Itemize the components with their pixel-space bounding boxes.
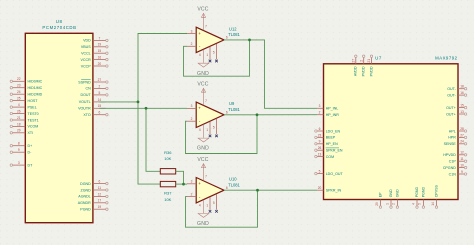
svg-text:24: 24	[17, 90, 21, 94]
svg-text:5: 5	[213, 201, 215, 205]
svg-text:3: 3	[191, 180, 193, 184]
junction U10 output node	[256, 189, 259, 192]
R37 value 10K	[164, 197, 171, 202]
wire U9 output to HP_INR	[224, 114, 317, 116]
junction U12 output node	[248, 39, 251, 42]
U10 value TL081	[228, 182, 240, 187]
svg-text:12: 12	[98, 192, 102, 196]
svg-text:R36: R36	[164, 150, 172, 155]
svg-text:PGND: PGND	[415, 187, 419, 198]
U9 reference designator	[229, 101, 235, 106]
svg-text:TL081: TL081	[228, 182, 240, 187]
U12 - input pin 2	[187, 42, 196, 46]
svg-text:+: +	[198, 181, 201, 186]
svg-text:LDO_EN: LDO_EN	[326, 129, 341, 133]
junction VOUTR node	[145, 107, 148, 110]
wire R37 output to U10 + input	[176, 183, 187, 185]
svg-text:4: 4	[199, 203, 201, 207]
svg-text:4: 4	[411, 203, 415, 205]
svg-text:19: 19	[98, 43, 102, 47]
svg-text:4: 4	[199, 53, 201, 57]
svg-text:5: 5	[213, 51, 215, 55]
GND power symbol below U10	[197, 214, 209, 228]
svg-text:VCOM: VCOM	[28, 125, 39, 129]
svg-text:VCCR: VCCR	[81, 58, 92, 62]
svg-text:26: 26	[318, 146, 322, 150]
IC U8 PCM2704CDB body	[25, 33, 93, 222]
svg-text:2: 2	[191, 192, 193, 196]
svg-text:20: 20	[98, 62, 102, 66]
U12 feedback wire (output to - input)	[184, 40, 250, 76]
U12 offset-null pin 1 with no-connect X	[206, 47, 211, 63]
svg-text:6: 6	[99, 180, 101, 184]
svg-text:PGND: PGND	[80, 208, 91, 212]
svg-text:+: +	[198, 106, 201, 111]
svg-text:11: 11	[460, 157, 464, 161]
wire R36 output down to mono node	[176, 171, 184, 184]
svg-text:SSPND: SSPND	[78, 80, 91, 84]
U8 left-side pins (HID0/MC,HID1/MC,HID2/MD,HOST,PSEL,TEST0,TEST1,VCOM,XTI,D+,D-,DT) with pin numbers	[10, 77, 43, 167]
svg-text:VDD: VDD	[83, 39, 91, 43]
svg-text:5: 5	[99, 91, 101, 95]
svg-text:10: 10	[460, 164, 464, 168]
U12 V- pin 4	[199, 50, 204, 63]
svg-text:2: 2	[191, 42, 193, 46]
svg-text:AVDD: AVDD	[354, 66, 358, 76]
R36 reference	[164, 150, 172, 155]
svg-text:XTO: XTO	[83, 113, 91, 117]
svg-text:19: 19	[98, 205, 102, 209]
VCC power symbol above U9	[197, 82, 208, 93]
svg-text:U8: U8	[56, 19, 63, 24]
svg-text:27: 27	[352, 59, 356, 63]
wire U10 output to SPKR_IN	[224, 189, 317, 191]
svg-text:2: 2	[392, 203, 396, 205]
U8 right-side pins (VDD,VBUS,VCCL,VCCR,VCCP,SSPND,CN,DOUT,VOUTL,VOUTR,XTO,DGND,ZGND,AGNDL,AGNDR,PGND) with pin numbers	[78, 36, 108, 211]
IC U7 MAX9792 body	[324, 64, 459, 200]
svg-text:5: 5	[418, 203, 422, 205]
U12 offset-null pin 5 with no-connect X	[213, 44, 218, 62]
svg-text:U12: U12	[229, 26, 237, 31]
svg-text:10K: 10K	[164, 156, 171, 161]
U10 offset-null pin 1 with no-connect X	[206, 197, 211, 213]
svg-text:HP_INR: HP_INR	[326, 113, 340, 117]
svg-text:2: 2	[99, 84, 101, 88]
svg-text:HPVDD: HPVDD	[443, 153, 456, 157]
U9 feedback wire (output to - input)	[186, 115, 258, 154]
svg-text:6: 6	[99, 111, 101, 115]
svg-text:27: 27	[460, 133, 464, 137]
U10 offset-null pin 5 with no-connect X	[213, 194, 218, 212]
svg-text:1: 1	[385, 203, 389, 205]
junction VOUTL node	[137, 101, 140, 104]
svg-text:U7: U7	[375, 56, 382, 61]
svg-text:23: 23	[17, 84, 21, 88]
svg-text:3: 3	[191, 104, 193, 108]
svg-text:CPGND: CPGND	[443, 166, 456, 170]
svg-text:1: 1	[206, 128, 208, 132]
U10 + input pin 3	[187, 180, 196, 184]
svg-text:AGNDL: AGNDL	[78, 195, 90, 199]
svg-text:2: 2	[319, 111, 321, 115]
svg-text:6: 6	[226, 186, 228, 190]
op-amp U12 TL081 body	[196, 27, 224, 52]
svg-text:15: 15	[98, 49, 102, 53]
svg-text:17: 17	[98, 199, 102, 203]
svg-text:PCM2704CDB: PCM2704CDB	[42, 25, 76, 30]
svg-text:U10: U10	[229, 177, 237, 182]
svg-text:HID0/MC: HID0/MC	[28, 80, 43, 84]
svg-text:2: 2	[359, 60, 363, 62]
U10 - input pin 2	[187, 192, 196, 196]
wire VOUTR (U8 pin 15) to U9 + input	[99, 107, 187, 109]
svg-text:16: 16	[460, 91, 464, 95]
U9 offset-null pin 1 with no-connect X	[206, 122, 211, 138]
svg-text:C1N: C1N	[449, 172, 457, 176]
svg-text:VBUS: VBUS	[81, 45, 91, 49]
svg-text:15: 15	[98, 104, 102, 108]
U9 V+ pin 7	[204, 89, 208, 106]
svg-text:4: 4	[199, 128, 201, 132]
svg-text:1: 1	[206, 53, 208, 57]
svg-text:SPKR_EN: SPKR_EN	[326, 149, 343, 153]
svg-text:OUT-: OUT-	[447, 87, 456, 91]
svg-text:18: 18	[460, 85, 464, 89]
svg-text:4: 4	[18, 103, 20, 107]
svg-text:6: 6	[319, 127, 321, 131]
svg-text:R37: R37	[164, 191, 172, 196]
svg-text:XTI: XTI	[28, 131, 34, 135]
svg-text:9: 9	[461, 170, 463, 174]
svg-text:2: 2	[191, 117, 193, 121]
U12 V+ pin 7	[204, 14, 208, 31]
svg-text:CPVSS: CPVSS	[434, 185, 438, 198]
svg-text:27: 27	[98, 78, 102, 82]
svg-text:TL081: TL081	[228, 107, 240, 112]
U12 output pin 6	[226, 36, 228, 40]
svg-text:PVDD: PVDD	[369, 66, 373, 76]
U10 V+ pin 7	[204, 164, 208, 181]
svg-text:OUT+: OUT+	[446, 106, 456, 110]
resistor R36	[160, 169, 175, 174]
svg-text:GND: GND	[197, 221, 209, 227]
wire U12 output to HP_INL	[224, 40, 317, 108]
svg-text:GND: GND	[197, 146, 209, 152]
svg-text:14: 14	[431, 202, 435, 206]
svg-text:OUT+: OUT+	[446, 112, 456, 116]
U7 right-side pins (OUT-,OUT-,OUT+,OUT+,HPL,HPR,SENSE,HPVDD,C1P,CPGND,C1N) with pin numbers	[443, 85, 467, 177]
svg-text:29: 29	[375, 202, 379, 206]
svg-text:PSEL: PSEL	[28, 105, 37, 109]
svg-text:22: 22	[17, 77, 21, 81]
R37 reference	[164, 191, 172, 196]
U10 feedback wire (output to - input)	[186, 190, 258, 227]
U8 value PCM2704CDB	[42, 25, 76, 30]
wire node down to resistor R37	[138, 102, 160, 184]
svg-text:VCC: VCC	[197, 7, 208, 13]
svg-text:18: 18	[17, 122, 21, 126]
svg-text:16: 16	[98, 56, 102, 60]
svg-text:13: 13	[460, 110, 464, 114]
svg-text:29: 29	[17, 129, 21, 133]
U9 + input pin 3	[187, 104, 196, 108]
U9 value TL081	[228, 107, 240, 112]
U7 left-side pins (HP_INL,HP_INR,LDO_EN,BEEP,HP_EN,SPKR_EN,COM,LDO_OUT,SPKR_IN) with pin numbers	[315, 104, 344, 192]
svg-text:VOUTR: VOUTR	[78, 107, 91, 111]
svg-text:9: 9	[18, 148, 20, 152]
svg-text:HOST: HOST	[28, 99, 39, 103]
U7 top-side power pins (AVDD,PVDD,PVDD) with pin numbers	[352, 55, 374, 76]
svg-text:15: 15	[460, 104, 464, 108]
svg-text:TL081: TL081	[228, 32, 240, 37]
svg-text:7: 7	[99, 36, 101, 40]
U9 - input pin 2	[187, 117, 196, 121]
svg-text:13: 13	[318, 153, 322, 157]
GND power symbol below U12	[197, 63, 209, 77]
svg-text:U9: U9	[229, 101, 235, 106]
svg-text:3: 3	[191, 29, 193, 33]
svg-text:28: 28	[460, 127, 464, 131]
svg-text:10K: 10K	[164, 197, 171, 202]
resistor R37	[160, 181, 175, 186]
svg-text:1: 1	[206, 203, 208, 207]
svg-text:PVDD: PVDD	[362, 66, 366, 76]
svg-text:VCCL: VCCL	[81, 52, 91, 56]
svg-text:BEEP: BEEP	[326, 136, 336, 140]
svg-text:HID2/MD: HID2/MD	[28, 93, 43, 97]
wire node up to U12 + input	[138, 34, 187, 102]
svg-text:D+: D+	[28, 144, 33, 148]
svg-text:5: 5	[319, 170, 321, 174]
U7 value MAX9792	[435, 56, 457, 61]
U7 reference designator	[375, 56, 382, 61]
svg-text:24: 24	[460, 140, 464, 144]
U9 V- pin 4	[199, 124, 204, 137]
svg-text:TEST0: TEST0	[28, 112, 39, 116]
svg-text:VCC: VCC	[197, 82, 208, 88]
VCC power symbol above U12	[197, 7, 208, 18]
svg-text:COM: COM	[326, 155, 334, 159]
svg-text:6: 6	[226, 110, 228, 114]
svg-text:12: 12	[460, 151, 464, 155]
svg-text:HP_EN: HP_EN	[326, 142, 338, 146]
svg-text:ZGND: ZGND	[81, 188, 92, 192]
svg-text:HP_INL: HP_INL	[326, 107, 339, 111]
U10 output pin 6	[226, 186, 228, 190]
svg-text:11: 11	[98, 186, 102, 190]
svg-text:VOUTL: VOUTL	[79, 100, 91, 104]
svg-text:AGNDR: AGNDR	[78, 201, 91, 205]
svg-text:LDO_OUT: LDO_OUT	[326, 172, 344, 176]
svg-text:21: 21	[17, 116, 21, 120]
svg-text:9: 9	[319, 140, 321, 144]
svg-text:VCCP: VCCP	[81, 64, 92, 68]
svg-text:7: 7	[205, 175, 207, 179]
svg-text:CN: CN	[85, 87, 91, 91]
svg-text:21: 21	[367, 59, 371, 63]
svg-text:HID1/MC: HID1/MC	[28, 86, 43, 90]
svg-text:HPL: HPL	[449, 129, 456, 133]
svg-text:VCC: VCC	[197, 157, 208, 163]
junction mono summing node	[182, 183, 185, 186]
svg-text:MAX9792: MAX9792	[435, 56, 457, 61]
svg-text:3: 3	[319, 104, 321, 108]
op-amp U10 TL081 body	[196, 178, 224, 203]
svg-text:SENSE: SENSE	[444, 142, 457, 146]
R36 value 10K	[164, 156, 171, 161]
U12 value TL081	[228, 32, 240, 37]
U7 bottom-side pins (EP,GND,GND,PGND,PGND,CPVSS) with pin numbers	[375, 185, 439, 209]
svg-text:+: +	[198, 31, 201, 36]
svg-text:DOUT: DOUT	[81, 93, 92, 97]
U12 reference designator	[229, 26, 237, 31]
svg-text:DGND: DGND	[80, 182, 91, 186]
op-amp U9 TL081 body	[196, 102, 224, 127]
svg-text:20: 20	[318, 186, 322, 190]
svg-text:SPKR_IN: SPKR_IN	[326, 189, 342, 193]
svg-text:TEST1: TEST1	[28, 118, 39, 122]
svg-text:7: 7	[205, 99, 207, 103]
junction U9 output node	[256, 113, 259, 116]
svg-text:GND: GND	[395, 189, 399, 197]
svg-text:25: 25	[17, 97, 21, 101]
svg-text:23: 23	[318, 133, 322, 137]
U9 offset-null pin 5 with no-connect X	[213, 119, 218, 137]
svg-text:8: 8	[18, 142, 20, 146]
svg-text:7: 7	[205, 24, 207, 28]
wire VOUTL (U8 pin 14) to node	[99, 101, 138, 103]
svg-text:EP: EP	[378, 192, 382, 197]
svg-text:DT: DT	[28, 163, 34, 167]
svg-text:C1P: C1P	[449, 160, 457, 164]
svg-text:OUT-: OUT-	[447, 93, 456, 97]
svg-text:14: 14	[98, 98, 102, 102]
U9 output pin 6	[226, 110, 228, 114]
wire node down to resistor R36	[146, 108, 160, 171]
GND power symbol below U9	[197, 138, 209, 152]
svg-text:6: 6	[226, 36, 228, 40]
U10 reference designator	[229, 177, 237, 182]
VCC power symbol above U10	[197, 157, 208, 168]
U10 V- pin 4	[199, 200, 204, 213]
svg-text:GND: GND	[389, 189, 393, 197]
svg-text:HPR: HPR	[448, 136, 456, 140]
U8 reference designator	[56, 19, 63, 24]
svg-text:5: 5	[213, 125, 215, 129]
svg-text:26: 26	[17, 109, 21, 113]
U12 + input pin 3	[187, 29, 196, 33]
svg-text:PGND: PGND	[421, 187, 425, 198]
svg-text:3: 3	[18, 161, 20, 165]
